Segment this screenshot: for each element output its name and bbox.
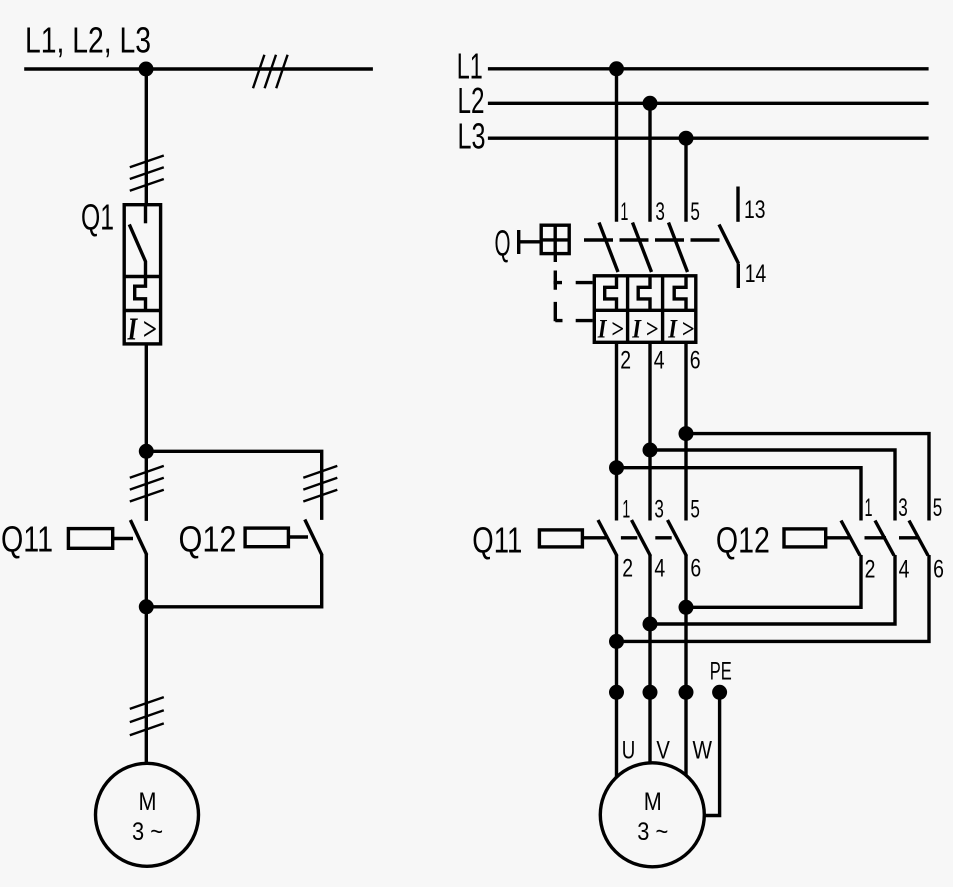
svg-text:3: 3: [654, 495, 664, 523]
Q11 contact blade pole 2: [632, 520, 651, 556]
dashed link to magnetic release: [554, 281, 593, 284]
wire crossover feed to Q12 pole 1: [617, 468, 862, 521]
motor M1 circle: [96, 763, 199, 866]
wire phase 2 overload to Q11 pole 2: [648, 342, 651, 520]
node dot return 3: [679, 600, 694, 615]
svg-text:I >: I >: [597, 314, 624, 343]
svg-text:13: 13: [744, 196, 766, 224]
svg-text:2: 2: [865, 556, 876, 584]
svg-text:2: 2: [622, 555, 633, 583]
terminal dot V: [643, 685, 658, 700]
wire Q12 pole 3 return: [617, 555, 930, 641]
svg-text:5: 5: [690, 495, 700, 523]
node junction dot below contactors: [139, 599, 154, 614]
wire crossover feed to Q12 pole 2: [650, 450, 895, 521]
wire Q11 pole 1 to motor U: [615, 555, 618, 777]
motor M2 circle: [600, 763, 704, 867]
three-phase slash marks above Q1: [130, 156, 164, 191]
Q1 top terminal stub: [144, 205, 147, 224]
Q handle box cross vertical: [554, 225, 557, 253]
wire node to motor: [145, 607, 148, 764]
wire phase 3 overload to Q11 pole 3: [684, 342, 687, 520]
overload relay box: [594, 276, 696, 343]
dashed mechanical link vertical: [554, 271, 557, 322]
wire L3 drop to switch pole 3: [684, 138, 687, 222]
contactor Q11 coil box: [68, 529, 112, 549]
svg-text:1: 1: [865, 494, 873, 522]
dashed link to thermal release: [555, 319, 592, 322]
terminal dot PE: [712, 685, 727, 700]
svg-text:I >: I >: [631, 314, 658, 343]
Q11 actuator link: [113, 537, 133, 540]
thermal release element pole 3: [674, 276, 686, 311]
aux contact blade: [719, 225, 739, 264]
wire PE to motor: [704, 692, 719, 815]
contactor Q11 coil box (right): [539, 530, 582, 547]
aux contact bottom stub: [737, 264, 740, 289]
svg-text:14: 14: [745, 260, 767, 288]
node dot L1 tap: [609, 61, 624, 76]
Q11 contact blade pole 3: [668, 520, 687, 556]
node junction dot branch: [139, 444, 154, 459]
Q11 actuator link (right): [582, 536, 606, 539]
Q12 actuator link (right): [826, 536, 850, 539]
node dot return 2: [643, 617, 658, 632]
svg-text:5: 5: [690, 198, 700, 226]
wire L2 drop to switch pole 2: [648, 103, 651, 222]
Q11 contact blade: [130, 520, 146, 555]
three-phase slash marks above motor: [130, 697, 164, 735]
svg-text:I >: I >: [667, 314, 694, 343]
wire phase 1 overload to Q11 pole 1: [615, 342, 618, 520]
svg-text:L1, L2, L3: L1, L2, L3: [25, 20, 151, 61]
svg-text:1: 1: [620, 198, 628, 226]
aux contact top stub: [736, 187, 739, 222]
svg-text:3: 3: [655, 198, 665, 226]
svg-text:W: W: [693, 737, 713, 765]
Q12 contact blade: [305, 520, 322, 556]
svg-text:6: 6: [690, 347, 701, 375]
wire Q12 to node: [146, 554, 321, 607]
Q12 contact blade pole 2: [875, 521, 894, 556]
svg-text:Q: Q: [495, 223, 511, 264]
three-phase slash marks above Q11: [130, 466, 164, 502]
wire branch to Q11: [145, 451, 148, 521]
svg-text:Q12: Q12: [716, 520, 770, 561]
svg-text:I >: I >: [127, 311, 157, 347]
node dot return 1: [609, 634, 624, 649]
wire Q11 to node: [145, 554, 148, 607]
Q handle box: [541, 225, 569, 253]
svg-text:U: U: [622, 737, 636, 765]
Q12 contact blade pole 1: [841, 521, 860, 556]
Q1 switch blade: [129, 224, 145, 276]
wire phase line L3: [488, 136, 929, 139]
terminal dot U: [609, 685, 624, 700]
three-phase slash marks above Q12: [303, 466, 337, 502]
wire phase line L2: [488, 102, 929, 105]
svg-text:Q1: Q1: [81, 197, 114, 238]
wire Q1 to branch node: [145, 344, 148, 451]
wire Q11 pole 2 to motor V: [648, 555, 651, 763]
Q handle tick: [517, 230, 520, 254]
wire Q12 pole 2 return: [650, 555, 895, 624]
Q12 actuator link: [288, 535, 308, 538]
Q12 contact blade pole 3: [909, 521, 928, 556]
svg-text:L3: L3: [458, 116, 486, 157]
wire L1 drop to switch pole 1: [615, 69, 618, 222]
Q switch blade pole 2: [633, 223, 652, 273]
svg-text:3 ~: 3 ~: [132, 818, 163, 846]
svg-text:6: 6: [933, 556, 944, 584]
svg-text:M: M: [139, 788, 157, 816]
node junction dot on bus: [139, 62, 154, 77]
wire bus top-left: [24, 67, 373, 70]
contactor Q12 coil box (right): [784, 529, 826, 547]
wire branch to Q12: [146, 451, 321, 520]
svg-text:M: M: [644, 788, 662, 816]
Q handle box cross horizontal: [541, 238, 569, 241]
circuit breaker Q1 body: [124, 205, 160, 344]
node dot crossover feed 1: [609, 460, 624, 475]
wire Q11 pole 3 to motor W: [684, 555, 687, 775]
svg-text:6: 6: [690, 555, 701, 583]
svg-text:1: 1: [622, 495, 630, 523]
svg-text:V: V: [656, 737, 670, 765]
Q12 dashed link between poles: [865, 536, 920, 539]
svg-text:Q11: Q11: [1, 519, 53, 560]
Q1 release latch: [135, 277, 146, 311]
svg-text:4: 4: [899, 556, 910, 584]
svg-text:Q11: Q11: [472, 520, 522, 561]
node dot L3 tap: [679, 131, 694, 146]
thermal release element pole 1: [605, 276, 617, 311]
dashed mechanical link through Q poles: [584, 238, 722, 241]
svg-text:5: 5: [933, 494, 943, 522]
Q11 contact blade pole 1: [598, 520, 617, 556]
wire crossover feed to Q12 pole 3: [686, 434, 929, 521]
Q handle link: [519, 240, 542, 243]
node dot crossover feed 3: [679, 426, 694, 441]
svg-text:4: 4: [654, 347, 665, 375]
svg-text:PE: PE: [710, 658, 732, 686]
terminal dot W: [679, 685, 694, 700]
contactor Q12 coil box: [245, 528, 288, 547]
wire phase line L1: [488, 67, 929, 70]
svg-text:3: 3: [898, 494, 908, 522]
Q switch blade pole 1: [599, 223, 618, 273]
node dot crossover feed 2: [643, 443, 658, 458]
wire Q12 pole 1 return: [686, 555, 861, 607]
svg-text:4: 4: [654, 555, 665, 583]
node dot L2 tap: [643, 96, 658, 111]
svg-text:2: 2: [620, 347, 631, 375]
thermal release element pole 2: [638, 276, 650, 311]
Q switch blade pole 3: [669, 223, 688, 273]
svg-text:Q12: Q12: [179, 519, 237, 560]
Q handle stub below box: [554, 254, 557, 262]
Q11 dashed link between poles: [621, 536, 672, 539]
wire bus to Q1: [145, 69, 148, 205]
svg-text:3 ~: 3 ~: [637, 818, 668, 846]
three-phase slash marks on bus: [253, 55, 288, 89]
